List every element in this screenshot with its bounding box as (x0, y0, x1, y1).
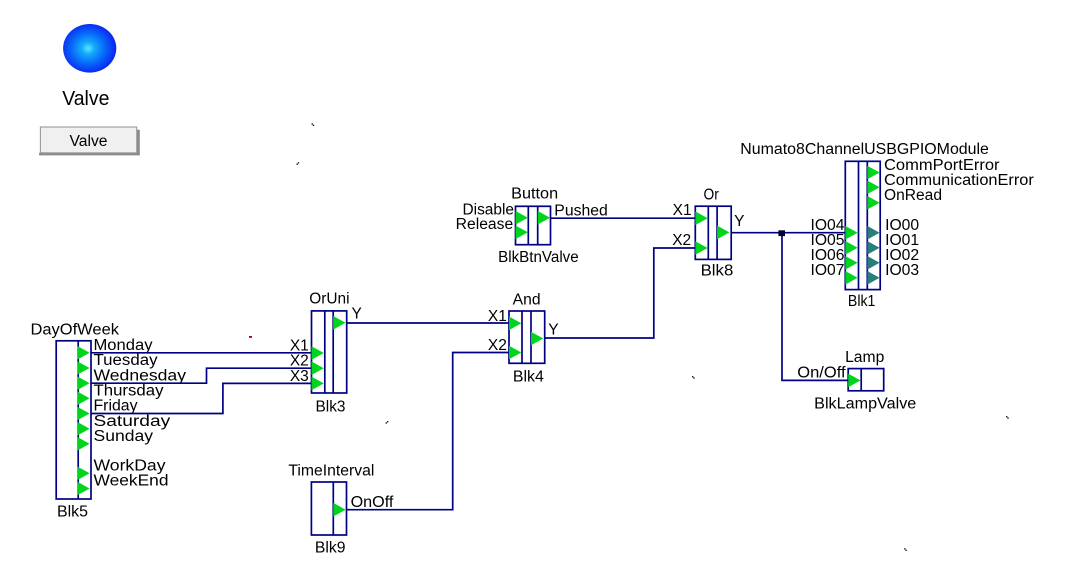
pin OrUni X3 input (312, 377, 324, 391)
pin Button Pushed output (538, 211, 550, 225)
svg-text:IO03: IO03 (885, 262, 919, 279)
svg-text:Blk8: Blk8 (701, 263, 734, 280)
svg-text:X2: X2 (672, 232, 691, 249)
svg-text:BlkBtnValve: BlkBtnValve (498, 249, 579, 266)
svg-text:And: And (513, 292, 541, 309)
wire Button Pushed to Or X1 (551, 217, 696, 219)
svg-text:Numato8ChannelUSBGPIOModule: Numato8ChannelUSBGPIOModule (740, 141, 989, 158)
svg-text:OnRead: OnRead (884, 187, 942, 204)
svg-text:Button: Button (511, 186, 558, 203)
pin And X2 input (509, 346, 521, 360)
stray red mark (249, 336, 252, 338)
svg-text:X1: X1 (673, 202, 692, 219)
pin TimeInterval OnOff output (333, 503, 345, 517)
pin Monday (77, 346, 89, 360)
block Numato8ChannelUSBGPIOModule Blk1 (845, 161, 880, 289)
stray speck 4 (386, 421, 389, 424)
pin OrUni X2 input (312, 361, 324, 375)
stray speck 1 (312, 123, 315, 126)
svg-text:Y: Y (548, 322, 558, 339)
svg-text:WeekEnd: WeekEnd (94, 473, 169, 490)
pin OnRead output (867, 196, 879, 210)
svg-text:OnOff: OnOff (351, 494, 395, 511)
pin IO07 input (845, 271, 857, 285)
pin Sunday (77, 437, 89, 451)
block Button BlkBtnValve (516, 206, 551, 244)
svg-text:IO07: IO07 (811, 262, 845, 279)
svg-text:Lamp: Lamp (845, 349, 884, 366)
pin Or Y output (717, 226, 729, 240)
pin WeekEnd (77, 482, 89, 496)
block Or Blk8 (695, 206, 731, 259)
pin And X1 input (509, 317, 521, 331)
svg-text:Or: Or (704, 187, 719, 204)
pin Lamp On/Off input (848, 374, 860, 388)
pin OrUni X1 input (312, 346, 324, 360)
svg-text:Sunday: Sunday (94, 428, 154, 445)
svg-text:Blk1: Blk1 (848, 293, 876, 310)
wire Or Y to Blk1 IO04 (731, 232, 845, 234)
wire TimeInterval OnOff to And X2 (347, 353, 510, 510)
svg-text:Blk4: Blk4 (513, 368, 544, 385)
svg-text:X3: X3 (290, 368, 309, 385)
svg-text:Valve: Valve (62, 88, 109, 110)
block DayOfWeek Blk5 (56, 341, 91, 499)
valve button shadow (39, 130, 140, 156)
pin IO00 output (867, 226, 879, 240)
pin WorkDay (77, 467, 89, 481)
stray speck 3 (692, 376, 695, 379)
svg-text:Release: Release (456, 216, 514, 233)
svg-text:DayOfWeek: DayOfWeek (31, 321, 120, 338)
svg-text:BlkLampValve: BlkLampValve (814, 396, 916, 413)
pin IO05 input (845, 241, 857, 255)
pin IO01 output (867, 241, 879, 255)
wire Wednesday to OrUni X2 (91, 368, 312, 383)
pin IO03 output (867, 271, 879, 285)
wire And Y to Or X2 (545, 248, 696, 338)
stray speck 5 (904, 548, 907, 551)
block And Blk4 (509, 311, 545, 363)
pin Saturday (77, 422, 89, 436)
pin IO04 input (845, 226, 857, 240)
svg-text:Y: Y (734, 213, 744, 230)
svg-text:Y: Y (352, 305, 362, 322)
pin Tuesday (77, 361, 89, 375)
wire Monday to OrUni X1 (91, 352, 312, 354)
pin IO06 input (845, 256, 857, 270)
valve button face (40, 127, 136, 153)
svg-text:Pushed: Pushed (554, 202, 608, 219)
pin Thursday (77, 392, 89, 406)
pin Or X1 input (695, 211, 707, 225)
wire Friday to OrUni X3 (91, 383, 312, 413)
svg-text:Blk5: Blk5 (57, 504, 88, 521)
svg-text:Valve: Valve (70, 133, 108, 150)
block Lamp BlkLampValve (848, 369, 884, 391)
valve indicator sphere (63, 24, 116, 73)
junction node (778, 230, 785, 236)
stray speck 6 (1006, 416, 1009, 419)
pin CommunicationError output (867, 181, 879, 195)
svg-text:TimeInterval: TimeInterval (288, 463, 374, 480)
block OrUni Blk3 (312, 311, 347, 393)
pin Friday (77, 407, 89, 421)
pin Wednesday (77, 376, 89, 390)
svg-text:Blk3: Blk3 (316, 399, 346, 416)
block TimeInterval Blk9 (311, 482, 346, 535)
wire junction to Lamp On/Off (782, 233, 848, 381)
pin OrUni Y output (333, 316, 345, 330)
pin And Y output (531, 332, 543, 346)
pin Button Release input (516, 226, 528, 240)
svg-text:X2: X2 (488, 337, 507, 354)
stray speck 2 (297, 162, 300, 165)
pin CommPortError output (867, 166, 879, 180)
pin IO02 output (867, 256, 879, 270)
wire OrUni Y to And X1 (347, 322, 509, 324)
pin Or X2 input (695, 241, 707, 255)
svg-text:On/Off: On/Off (797, 365, 846, 382)
pin Button Disable input (516, 211, 528, 225)
svg-text:OrUni: OrUni (309, 291, 349, 308)
svg-text:Blk9: Blk9 (315, 540, 346, 557)
